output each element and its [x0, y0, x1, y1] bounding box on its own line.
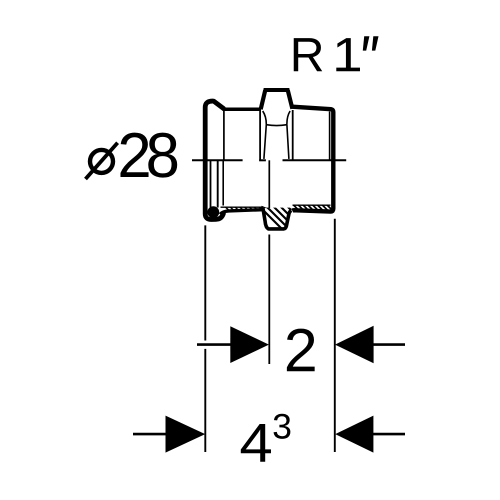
tooth top-left junction tick — [261, 207, 267, 209]
hatch dashes left band — [226, 207, 263, 210]
hex face bottom arc — [266, 124, 287, 127]
dimension 2 left tail — [197, 343, 231, 346]
centerline middle dash — [259, 159, 266, 161]
section edge line below hex — [268, 160, 270, 208]
dimension text 2 — [287, 329, 315, 372]
socket wall line b — [217, 161, 219, 208]
bead inner edge line — [223, 110, 225, 160]
hex right chamfer — [288, 90, 293, 109]
hex right outer line — [292, 110, 294, 160]
hex top band — [264, 88, 290, 92]
dimension text 4 — [241, 424, 271, 462]
thread root line right band — [293, 204, 331, 206]
tooth hatch — [253, 200, 323, 235]
dimension 4 right arrow — [335, 416, 373, 453]
dimension text superscript 3 — [274, 414, 291, 439]
hex right face curve — [287, 111, 290, 159]
hex left outer line — [259, 110, 261, 160]
hex left face curve — [263, 111, 267, 159]
thread outline (top edge, right edge, bottom edge) — [292, 107, 333, 212]
label ø28 (pipe diameter) — [86, 133, 178, 179]
bottom wall thick edge left band — [220, 210, 263, 215]
thread section tooth outline — [263, 208, 291, 229]
socket wall line a — [210, 161, 212, 208]
centerline right segment — [283, 159, 347, 161]
middle extension line — [268, 235, 270, 365]
label R1" (thread size) — [294, 36, 379, 71]
dimension 2 left arrow — [230, 326, 269, 363]
socket wall line c — [222, 161, 224, 206]
dimension 4 right tail — [373, 433, 405, 436]
dimension 2 right tail — [373, 343, 405, 346]
hatch dashes right band — [294, 205, 333, 210]
press bead outline — [205, 101, 223, 219]
o-ring seal dot — [207, 206, 219, 218]
thread chamfer inner line — [329, 112, 331, 160]
dimension 4 left arrow — [166, 416, 206, 453]
left extension line (upper part) — [204, 225, 206, 340]
dimension 2 right arrow — [335, 326, 374, 363]
bore line left band — [221, 206, 263, 208]
right extension line — [334, 219, 336, 452]
body top edge — [223, 108, 262, 112]
centerline left segment — [192, 159, 243, 161]
dimension 4 left tail — [133, 433, 166, 436]
left extension line (lower part) — [204, 349, 206, 452]
hex left chamfer — [261, 90, 266, 109]
